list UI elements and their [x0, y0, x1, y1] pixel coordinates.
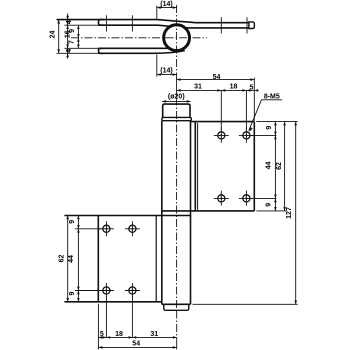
svg-text:9: 9 [266, 126, 273, 130]
knuckle joint line and right plate bottom edge [162, 210, 255, 212]
extension: left plate top to left [64, 215, 96, 217]
svg-text:62: 62 [59, 255, 66, 263]
dimension 127: arrows [294, 122, 297, 305]
svg-text:4: 4 [66, 49, 73, 53]
dimension 5/18/31 bottom: dim line [98, 336, 176, 338]
svg-text:18: 18 [230, 84, 238, 91]
front view center line [176, 98, 178, 312]
dimension (phi20): dim line [162, 100, 191, 102]
extension: hole row y=135.4 [251, 134, 277, 136]
dimension 4/16/4: arrows [66, 16, 69, 57]
top leaf bar bottom edge [99, 25, 189, 28]
dimension 24: arrows [57, 20, 60, 54]
left plate left edge [97, 216, 99, 302]
knuckle collar [162, 117, 191, 120]
barrel bottom edge [162, 303, 191, 305]
extension: hole row y=198.4 [251, 197, 277, 199]
hole column extension x=246.4 [245, 90, 247, 129]
dimension 62 left: arrows [66, 216, 69, 302]
svg-text:(14): (14) [160, 1, 172, 8]
dimension 54 bottom: dim line [98, 346, 176, 348]
leader line 8-M5 to hole [249, 100, 262, 131]
svg-text:44: 44 [266, 162, 273, 170]
svg-text:54: 54 [132, 340, 140, 347]
dimension 62 left: dim line [67, 216, 69, 302]
svg-text:24: 24 [49, 31, 56, 39]
dimension (14) bottom: left extension line [156, 55, 158, 77]
extension: barrel centerline up [176, 78, 178, 97]
dimension 54 bottom: arrows [98, 346, 176, 349]
bottom leaf bar bottom edge curving to knuckle [99, 51, 185, 54]
dimension 24: dim line [58, 20, 60, 54]
extension: barrel center down [176, 311, 178, 338]
dimension 54 top: arrows [177, 78, 255, 81]
pin cap (front view) [163, 104, 190, 117]
hole right plate top-left [214, 128, 229, 143]
svg-text:(ø20): (ø20) [168, 94, 185, 101]
dimension (14) bottom: arrows [157, 73, 177, 76]
dimension 31/18/5: arrows [177, 89, 259, 92]
svg-text:9: 9 [69, 29, 76, 33]
dimension 9/7: arrows [77, 25, 80, 48]
dimension 9/44/9 left: arrows [77, 216, 80, 302]
dimension (phi20): arrows [162, 100, 191, 103]
hole right plate bottom-right [239, 191, 254, 206]
extension: right plate top to right [256, 121, 297, 123]
hole right plate bottom-left [214, 191, 229, 206]
svg-text:127: 127 [286, 207, 293, 219]
hole left plate top-left [99, 221, 114, 236]
right plate left edge [194, 122, 196, 211]
dimension 5/18/31 bottom: arrows [98, 336, 176, 339]
top leaf bar bottom extension line [65, 24, 99, 26]
svg-text:9: 9 [69, 291, 76, 295]
svg-text:18: 18 [115, 331, 123, 338]
bottom leaf top extension line [65, 47, 99, 49]
right plate top edge [191, 121, 255, 123]
dimension (14) top: dim line [157, 7, 177, 9]
svg-text:4: 4 [66, 20, 73, 24]
svg-text:9: 9 [266, 203, 273, 207]
svg-text:31: 31 [194, 84, 202, 91]
dimension 31/18/5: dim line [177, 89, 255, 91]
extension: hole column x=132 down [131, 297, 133, 338]
hole centerline tick on right bar x=247 [246, 17, 248, 33]
left plate bottom edge with extension [65, 301, 162, 303]
right flat bar bottom edge [186, 27, 249, 29]
dimension 9/7: dim line [77, 25, 79, 48]
extension: left plate left edge down [97, 304, 99, 350]
hole centerline tick on top leaf x=132 [131, 15, 133, 31]
dimension 9/44/9 right: arrows [274, 122, 277, 211]
dimension 62 right: dim line [284, 122, 286, 211]
knuckle circle (top view) [164, 25, 190, 51]
hole column extension x=221.3 [220, 90, 222, 129]
extension: left plate hole row y=290.5 [75, 290, 102, 292]
left plate top edge with extension [65, 215, 191, 217]
dimension 54 top: dim line [177, 79, 255, 81]
extension: left plate bottom to left [64, 301, 96, 303]
barrel left edge [161, 121, 163, 305]
hole left plate top-right [125, 221, 140, 236]
dimension (14) bottom: dim line [157, 74, 177, 76]
vertical center line of pin (top view) [176, 5, 178, 79]
hole centerline tick on right bar x=221.3 [220, 17, 222, 33]
svg-text:(14): (14) [160, 68, 172, 75]
dimension 4/16/4: dim line [67, 14, 69, 59]
hole centerline tick on top leaf x=106 [105, 15, 107, 31]
right plate right edge [253, 122, 255, 211]
dimension (14) top: left extension line [156, 6, 158, 19]
right bar end cap [249, 22, 255, 29]
extension: hole column x=106 down [105, 297, 107, 338]
right plate bend line [197, 123, 199, 210]
svg-text:5: 5 [250, 84, 254, 91]
hole left plate bottom-right [125, 283, 140, 298]
top leaf top edge with left extension [57, 20, 249, 23]
bottom cap [164, 304, 189, 310]
hole right plate top-right [239, 128, 254, 143]
dimension 9/44/9 left: dim line [77, 216, 79, 302]
dimension 62 right: arrows [283, 122, 286, 211]
svg-text:62: 62 [276, 162, 283, 170]
extension: plate right edge up [253, 78, 255, 121]
svg-text:44: 44 [68, 255, 75, 263]
svg-text:5: 5 [100, 331, 104, 338]
svg-text:9: 9 [69, 220, 76, 224]
bottom leaf rounded left cap [99, 48, 105, 53]
extension: barrel bottom to right [193, 303, 298, 305]
hole left plate bottom-left [99, 283, 114, 298]
horizontal center line of top view [71, 37, 207, 39]
bottom leaf bottom extension line [57, 52, 99, 54]
dimension 9/44/9 right: dim line [274, 122, 276, 211]
bottom leaf bar top edge [99, 47, 171, 49]
svg-text:31: 31 [150, 331, 158, 338]
left plate right bend line [155, 216, 157, 302]
svg-text:54: 54 [213, 74, 221, 81]
barrel right edge [190, 121, 192, 305]
top leaf bar rounded left cap [99, 20, 105, 26]
extension: left plate hole row y=228.8 [75, 228, 102, 230]
extension: right plate bottom [256, 210, 286, 212]
svg-text:7: 7 [69, 40, 76, 44]
dimension 127: dim line [295, 122, 297, 305]
dimension (14) top: arrows [157, 6, 177, 9]
